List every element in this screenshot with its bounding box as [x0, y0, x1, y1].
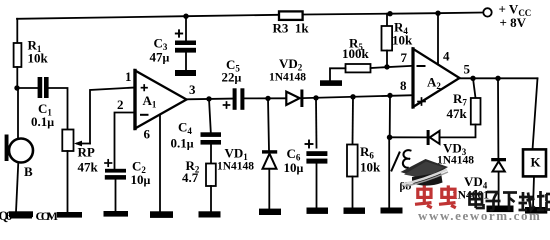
svg-text:1N4148: 1N4148: [437, 155, 474, 167]
wire VD2 to A2 pin8: [304, 95, 413, 98]
terminal Vcc: [483, 8, 491, 16]
svg-text:47μ: 47μ: [150, 50, 170, 65]
switch Sb strokes: [392, 153, 400, 171]
node output-R7: [470, 76, 475, 81]
node C6: [313, 95, 318, 100]
capacitor C4: [201, 132, 222, 137]
wire VD3 to node: [390, 136, 427, 138]
svg-text:10μ: 10μ: [131, 172, 151, 187]
svg-text:4: 4: [443, 49, 450, 64]
svg-text:10μ: 10μ: [284, 160, 304, 175]
wire VD1 to ground: [268, 169, 270, 209]
node C5-VD1: [265, 96, 270, 101]
wire R2 to ground: [210, 186, 212, 212]
ground R5: [320, 80, 342, 86]
svg-text:1N4148: 1N4148: [217, 161, 254, 173]
glyph dian: [470, 194, 483, 205]
op-amp A2: [413, 49, 460, 107]
diode VD4: [491, 158, 506, 161]
diode VD2: [286, 92, 299, 105]
ground C2: [104, 211, 129, 217]
node output-VD4: [495, 76, 500, 81]
watermark graduation cap: [401, 159, 449, 187]
wire pin4: [437, 13, 439, 64]
wire VD1 column: [268, 98, 269, 150]
node VD3 branch: [387, 93, 392, 98]
plus sign A2: [418, 101, 425, 103]
node R6: [350, 94, 355, 99]
resistor R6: [347, 145, 358, 177]
minus sign A1: [141, 114, 148, 116]
resistor R1: [14, 43, 22, 67]
svg-text:B: B: [24, 164, 33, 179]
wire VD4 to ground: [498, 172, 500, 207]
wire C3 column: [185, 16, 187, 40]
svg-text:6: 6: [144, 127, 151, 142]
watermark chong character 1: [415, 185, 432, 207]
wire VD4 column: [497, 78, 499, 158]
wire R1 to node: [16, 67, 18, 88]
plus sign C3: [176, 33, 182, 35]
svg-text:100k: 100k: [342, 46, 370, 61]
wire K to ground: [533, 176, 534, 207]
svg-text:10k: 10k: [392, 33, 413, 48]
svg-text:1N4148: 1N4148: [269, 72, 306, 84]
capacitor C5: [233, 88, 237, 110]
plus sign C5: [224, 104, 230, 106]
svg-text:2: 2: [117, 97, 124, 112]
node R1-C1-mic: [14, 85, 19, 90]
capacitor C1: [17, 87, 38, 89]
wire R5 left to ground: [330, 68, 346, 80]
wire R7 top: [473, 78, 476, 98]
svg-text:47k: 47k: [78, 160, 99, 175]
ground C6: [307, 208, 329, 214]
wire R4 column: [386, 14, 388, 26]
ground VD1: [259, 209, 281, 215]
glyph zhan: [539, 191, 542, 210]
minus sign A2: [418, 65, 425, 67]
resistor R7: [471, 98, 481, 125]
svg-text:1: 1: [125, 69, 132, 84]
diode VD1: [262, 150, 277, 153]
relay K: [523, 149, 546, 176]
wire RP to ground: [67, 151, 69, 213]
ground pin6: [150, 211, 173, 218]
wire C6 column: [315, 98, 318, 148]
svg-text:8: 8: [400, 78, 407, 93]
resistor R5: [346, 64, 371, 72]
svg-text:47k: 47k: [447, 106, 468, 121]
ground R6: [344, 208, 366, 214]
watermark chong character 2: [439, 185, 456, 207]
wire microphone to ground: [16, 162, 18, 212]
glyph zi: [487, 191, 499, 194]
watermark dianzi xiazaizhan: [470, 190, 550, 211]
ground C3: [175, 70, 196, 76]
op-amp A1: [135, 71, 187, 129]
svg-text:4.7: 4.7: [182, 170, 199, 185]
wire C3 to ground: [185, 53, 187, 70]
wire R6 column: [352, 97, 355, 145]
glyph zai: [519, 196, 533, 199]
ground switch: [381, 208, 403, 214]
plus sign C6: [306, 143, 313, 145]
wire node down from signal line: [389, 96, 391, 138]
svg-text:0.1μ: 0.1μ: [171, 136, 194, 151]
svg-text:0.1μ: 0.1μ: [31, 114, 54, 129]
wire R5 to pin7: [371, 66, 414, 68]
diode VD3: [430, 131, 440, 144]
svg-text:Q6: Q6: [0, 209, 12, 223]
wire C4 to R2: [210, 145, 212, 164]
wire output to relay: [533, 78, 538, 150]
svg-text:3: 3: [189, 82, 196, 97]
wire C6 to ground: [316, 164, 318, 208]
svg-text:R3 1k: R3 1k: [273, 21, 310, 36]
wire C1 to RP: [49, 88, 68, 129]
wire pin2: [115, 113, 136, 169]
wire pin6 to ground: [159, 115, 161, 212]
wire A2 output: [460, 77, 538, 79]
node rail-R4: [387, 11, 392, 16]
svg-text:COM: COM: [36, 209, 59, 223]
capacitor C3: [175, 41, 196, 46]
wire R1 column: [16, 19, 18, 43]
wire C4 column: [209, 99, 211, 132]
wire C2 to ground: [115, 180, 117, 212]
ground mic: [9, 211, 33, 217]
ground RP: [57, 212, 82, 218]
wire R6 to ground: [352, 177, 354, 209]
wire switch column to ground: [388, 137, 390, 208]
wire R4 to node: [386, 51, 388, 67]
ground K: [525, 207, 547, 214]
ground VD4: [487, 206, 514, 213]
wire node to microphone: [17, 88, 19, 139]
node VD3-switch: [387, 135, 393, 141]
svg-text:RP: RP: [78, 145, 95, 160]
wire top supply rail: [17, 13, 483, 19]
ground R2: [199, 211, 221, 217]
plus sign A1: [142, 87, 148, 89]
node rail-C3: [183, 14, 188, 19]
resistor R3: [279, 11, 303, 20]
wire R7 bottom: [440, 125, 476, 138]
wiper arrow RP: [77, 143, 90, 145]
node rail-pin4: [435, 11, 440, 16]
wire A1 output: [187, 98, 233, 101]
node R4-R5-pin7: [384, 64, 389, 69]
glyph xia: [503, 191, 517, 194]
node output-C4: [206, 96, 211, 101]
microphone B: [9, 139, 33, 163]
svg-text:www.eeworm.com: www.eeworm.com: [418, 208, 541, 223]
plus sign C2: [105, 162, 112, 164]
svg-text:+ 8V: + 8V: [500, 15, 527, 30]
svg-text:5: 5: [464, 62, 471, 77]
wire C5 to VD2: [244, 97, 286, 99]
resistor R4: [382, 26, 393, 51]
svg-text:22μ: 22μ: [222, 70, 242, 85]
svg-text:K: K: [531, 155, 542, 170]
capacitor C2: [105, 169, 126, 173]
wire RP wiper riser to pin1: [90, 88, 135, 144]
svg-text:7: 7: [401, 50, 408, 65]
potentiometer RP: [62, 130, 73, 152]
svg-text:10k: 10k: [28, 51, 49, 66]
svg-text:10k: 10k: [360, 160, 381, 175]
resistor R2: [206, 164, 216, 187]
capacitor C6: [306, 151, 327, 156]
